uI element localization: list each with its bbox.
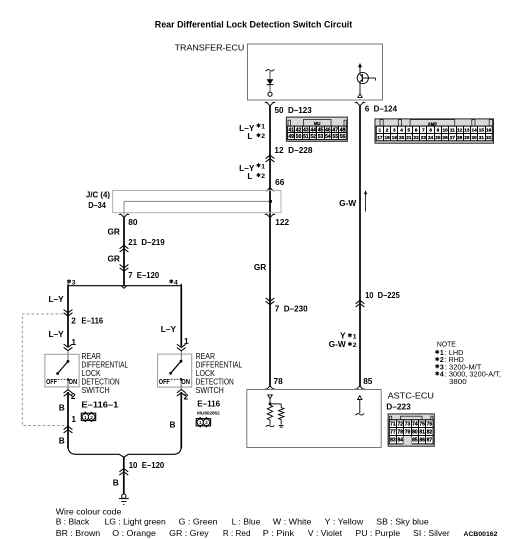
svg-text:24: 24 (428, 135, 434, 140)
svg-text:31: 31 (479, 135, 485, 140)
svg-text:71: 71 (390, 422, 396, 428)
svg-text:26: 26 (443, 135, 449, 140)
svg-text:B: B (170, 420, 176, 430)
svg-text:85: 85 (412, 438, 418, 444)
svg-text:Wire colour code: Wire colour code (56, 506, 122, 516)
svg-text:OFF: OFF (159, 377, 170, 386)
svg-text:85: 85 (363, 376, 373, 386)
svg-text:OFF: OFF (46, 377, 57, 386)
svg-text:29: 29 (464, 135, 470, 140)
svg-text:D–223: D–223 (386, 402, 411, 412)
svg-text:G-W: G-W (339, 198, 356, 208)
svg-text:4: 4 (400, 128, 403, 133)
svg-text:1: 1 (440, 350, 444, 357)
svg-text:2: 2 (184, 391, 189, 401)
svg-text:GR : Grey: GR : Grey (169, 528, 209, 538)
svg-text:ON: ON (181, 377, 190, 386)
svg-text:46: 46 (325, 127, 331, 133)
svg-text:16: 16 (486, 128, 492, 133)
svg-text:78: 78 (274, 376, 284, 386)
svg-text:1: 1 (71, 414, 76, 424)
svg-text:49: 49 (288, 134, 294, 140)
svg-text:R : Red: R : Red (223, 528, 251, 538)
svg-text:P : Pink: P : Pink (263, 528, 295, 538)
svg-text:G : Green: G : Green (179, 517, 218, 527)
svg-text:ACB00162: ACB00162 (464, 531, 498, 538)
svg-text:8: 8 (429, 128, 432, 133)
svg-text:82: 82 (427, 430, 433, 436)
svg-text:GR: GR (107, 227, 119, 237)
svg-text:Y : Yellow: Y : Yellow (325, 517, 365, 527)
svg-text:V : Violet: V : Violet (308, 528, 343, 538)
svg-text:L: L (247, 171, 252, 181)
svg-text:B: B (59, 436, 65, 446)
svg-text:9: 9 (437, 128, 440, 133)
svg-text:74: 74 (412, 422, 418, 428)
svg-text:86: 86 (419, 438, 425, 444)
svg-text:E–116: E–116 (197, 399, 220, 409)
svg-text:1: 1 (261, 163, 265, 170)
svg-text:43: 43 (303, 127, 309, 133)
svg-text:SWITCH: SWITCH (82, 386, 110, 395)
svg-text:W : White: W : White (273, 517, 312, 527)
svg-text:53: 53 (318, 134, 324, 140)
svg-text:: 3200-M/T: : 3200-M/T (445, 364, 482, 371)
svg-text:7: 7 (422, 128, 425, 133)
svg-text:10 E–120: 10 E–120 (129, 460, 165, 470)
svg-text:L–Y: L–Y (48, 294, 64, 304)
svg-text:56: 56 (340, 134, 346, 140)
svg-text:2: 2 (71, 391, 76, 401)
svg-text:E–116: E–116 (81, 316, 103, 326)
svg-text:2: 2 (353, 342, 357, 349)
svg-text:77: 77 (390, 430, 396, 436)
svg-text:BR : Brown: BR : Brown (56, 528, 101, 538)
svg-text:2: 2 (386, 128, 389, 133)
svg-text:: 3000, 3200-A/T,: : 3000, 3200-A/T, (445, 372, 501, 379)
svg-text:20: 20 (399, 135, 405, 140)
svg-text:55: 55 (332, 134, 338, 140)
svg-text:3: 3 (393, 128, 396, 133)
svg-text:23: 23 (421, 135, 427, 140)
svg-text:22: 22 (414, 135, 420, 140)
svg-text:32: 32 (486, 135, 492, 140)
svg-text:3800: 3800 (449, 379, 467, 386)
svg-text:12 D–228: 12 D–228 (274, 145, 312, 155)
svg-text:14: 14 (472, 128, 478, 133)
svg-text:: LHD: : LHD (445, 350, 464, 357)
svg-text:52: 52 (310, 134, 316, 140)
svg-text:E–116–1: E–116–1 (81, 399, 118, 409)
svg-text:1: 1 (353, 333, 357, 340)
svg-text:ON: ON (69, 377, 78, 386)
svg-text:50: 50 (296, 134, 302, 140)
svg-text:44: 44 (310, 127, 316, 133)
svg-text:3: 3 (440, 364, 444, 371)
svg-text:B: B (113, 478, 119, 488)
svg-text:4: 4 (174, 279, 178, 286)
svg-text:73: 73 (405, 422, 411, 428)
svg-text:15: 15 (479, 128, 485, 133)
svg-text:1: 1 (261, 123, 265, 130)
svg-text:30: 30 (472, 135, 478, 140)
svg-text:12: 12 (457, 128, 463, 133)
svg-text:2: 2 (440, 357, 444, 364)
svg-text:10: 10 (443, 128, 449, 133)
svg-text:SI : Silver: SI : Silver (413, 528, 450, 538)
svg-text:2: 2 (261, 173, 265, 180)
svg-text:LG : Light green: LG : Light green (105, 517, 166, 527)
svg-text:SWITCH: SWITCH (196, 386, 224, 395)
svg-text:PU : Purple: PU : Purple (355, 528, 400, 538)
svg-text:122: 122 (275, 217, 289, 227)
svg-text:4: 4 (440, 372, 444, 379)
svg-text:7 D–230: 7 D–230 (275, 303, 308, 313)
svg-text:L: L (247, 131, 252, 141)
svg-text:Rear Differential Lock Detecti: Rear Differential Lock Detection Switch … (155, 20, 353, 30)
svg-text:25: 25 (435, 135, 441, 140)
svg-text:2: 2 (71, 315, 76, 325)
svg-text:13: 13 (464, 128, 470, 133)
svg-text:7 E–120: 7 E–120 (128, 270, 159, 280)
svg-text:B: B (59, 403, 65, 413)
svg-text:21: 21 (406, 135, 412, 140)
svg-text:D–34: D–34 (88, 200, 106, 210)
svg-text:54: 54 (325, 134, 331, 140)
svg-text:2: 2 (261, 133, 265, 140)
svg-text:SB : Sky blue: SB : Sky blue (376, 517, 429, 527)
svg-text:41: 41 (288, 127, 294, 133)
svg-text:48: 48 (340, 127, 346, 133)
svg-text:GR: GR (254, 262, 266, 272)
svg-text:18: 18 (384, 135, 390, 140)
svg-text:21 D–219: 21 D–219 (128, 237, 165, 247)
svg-text:51: 51 (303, 134, 309, 140)
svg-text:G-W: G-W (329, 339, 346, 349)
svg-text:78: 78 (397, 430, 403, 436)
svg-text:42: 42 (296, 127, 302, 133)
svg-text:GR: GR (107, 254, 119, 264)
svg-text:J/C (4): J/C (4) (86, 189, 110, 199)
svg-text:72: 72 (397, 422, 403, 428)
svg-text:11: 11 (450, 128, 455, 133)
svg-text:B : Black: B : Black (56, 517, 90, 527)
svg-text:MU802662: MU802662 (197, 411, 220, 416)
svg-text:28: 28 (457, 135, 463, 140)
svg-text:5: 5 (408, 128, 411, 133)
svg-text:80: 80 (128, 217, 138, 227)
svg-text:76: 76 (427, 422, 433, 428)
svg-text:87: 87 (427, 438, 433, 444)
svg-text:27: 27 (450, 135, 456, 140)
svg-text:NOTE: NOTE (437, 342, 456, 349)
svg-text:L–Y: L–Y (161, 324, 177, 334)
svg-text:1: 1 (379, 128, 382, 133)
svg-text:6: 6 (415, 128, 418, 133)
svg-text:45: 45 (318, 127, 324, 133)
svg-text:1: 1 (71, 337, 76, 347)
svg-text:84: 84 (397, 438, 403, 444)
svg-text:: RHD: : RHD (445, 357, 464, 364)
svg-text:75: 75 (419, 422, 425, 428)
svg-text:O : Orange: O : Orange (112, 528, 156, 538)
svg-text:ASTC-ECU: ASTC-ECU (388, 390, 434, 400)
svg-text:83: 83 (390, 438, 396, 444)
svg-text:L–Y: L–Y (48, 329, 64, 339)
svg-text:MU: MU (314, 121, 321, 126)
svg-text:47: 47 (332, 127, 338, 133)
svg-text:10 D–225: 10 D–225 (365, 290, 400, 300)
svg-text:3: 3 (72, 279, 76, 286)
svg-text:17: 17 (377, 135, 383, 140)
svg-text:6 D–124: 6 D–124 (365, 104, 397, 114)
svg-text:19: 19 (392, 135, 398, 140)
svg-text:80: 80 (412, 430, 418, 436)
svg-text:TRANSFER-ECU: TRANSFER-ECU (175, 42, 245, 52)
svg-text:66: 66 (275, 177, 285, 187)
svg-text:79: 79 (405, 430, 411, 436)
svg-text:50 D–123: 50 D–123 (275, 105, 313, 115)
svg-text:L : Blue: L : Blue (232, 517, 261, 527)
svg-text:81: 81 (419, 430, 425, 436)
